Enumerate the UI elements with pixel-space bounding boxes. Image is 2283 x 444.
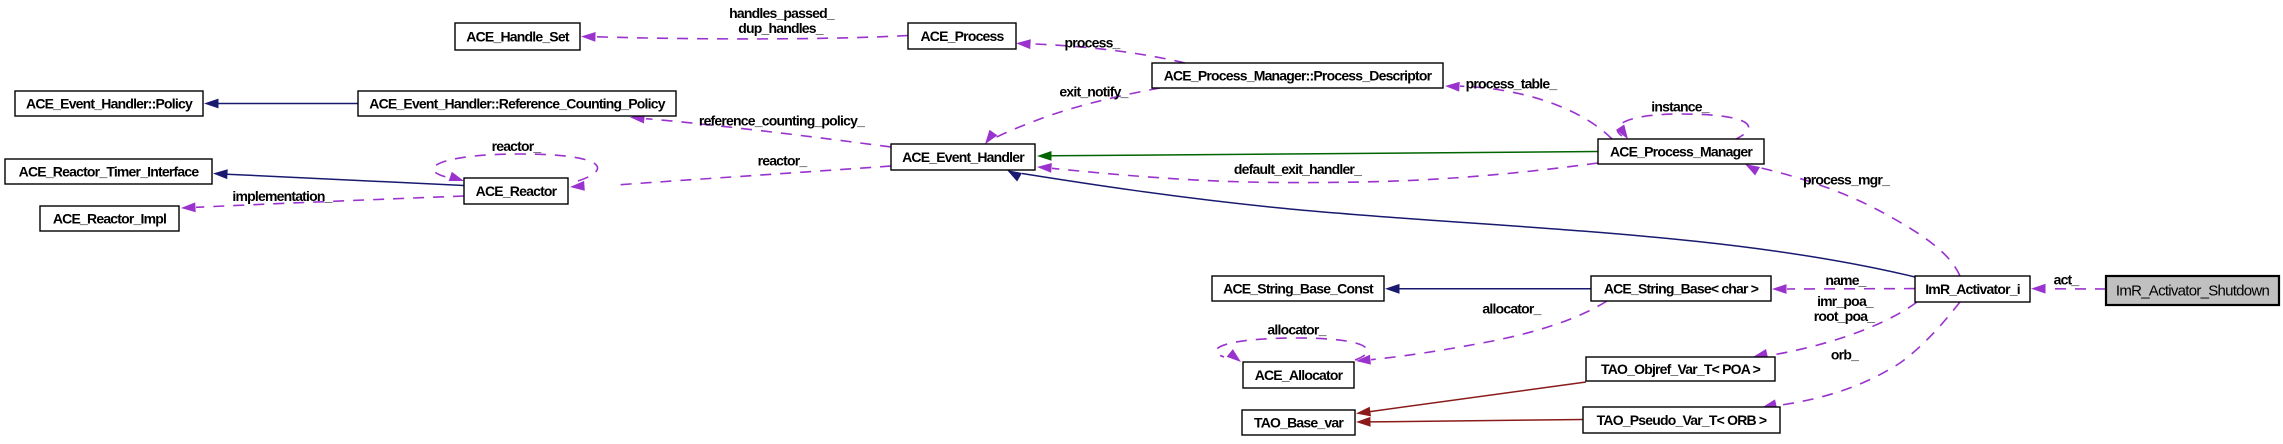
node ACE_String_Base_Const <box>1212 276 1384 301</box>
svg-text:handles_passed_: handles_passed_ <box>729 5 835 21</box>
edge label implementation_ <box>232 188 332 204</box>
edge label imr_poa_ <box>1817 293 1874 309</box>
svg-text:ACE_Event_Handler::Policy: ACE_Event_Handler::Policy <box>26 96 193 112</box>
svg-text:ACE_Process: ACE_Process <box>920 28 1004 44</box>
edge default_exit_handler_ (ACE_Process_Manager to ACE_Event_Handler) <box>1037 163 1598 183</box>
edge reactor_ (ACE_Event_Handler to ACE_Reactor) <box>570 166 891 191</box>
node ImR_Activator_i <box>1915 276 2030 302</box>
self-loop instance_ on ACE_Process_Manager <box>1616 114 1749 140</box>
edge label default_exit_handler_ <box>1234 161 1362 177</box>
edge label instance_ <box>1651 99 1709 115</box>
svg-text:ACE_Allocator: ACE_Allocator <box>1255 367 1344 383</box>
edge label name_ <box>1825 272 1866 288</box>
edge reference_counting_policy_ (ACE_Event_Handler to ACE_Event_Handler::Reference_Counting_Policy) <box>630 114 891 147</box>
edge label process_mgr_ <box>1803 172 1890 188</box>
edge label allocator_ <box>1267 322 1326 338</box>
svg-text:allocator_: allocator_ <box>1267 322 1326 338</box>
svg-text:TAO_Base_var: TAO_Base_var <box>1254 415 1344 431</box>
inheritance edge (TAO_Objref_Var_T POA to TAO_Base_var, private) <box>1356 382 1586 416</box>
node ACE_Allocator <box>1243 362 1354 388</box>
edge process_ (Process_Descriptor to ACE_Process) <box>1016 39 1185 63</box>
node ACE_Handle_Set <box>455 23 580 50</box>
edge label act_ <box>2054 272 2080 288</box>
node TAO_Pseudo_Var_TORB <box>1583 407 1780 433</box>
edge process_table_ (ACE_Process_Manager to Process_Descriptor) <box>1445 82 1612 139</box>
edge label root_poa_ <box>1814 308 1875 324</box>
svg-text:reactor_: reactor_ <box>492 138 542 154</box>
svg-text:orb_: orb_ <box>1831 347 1859 363</box>
svg-text:ImR_Activator_i: ImR_Activator_i <box>1925 281 2020 297</box>
node ACE_Process_Manager_Process_Descriptor <box>1152 63 1443 88</box>
node ACE_Reactor_Impl <box>40 206 179 231</box>
svg-text:dup_handles_: dup_handles_ <box>738 20 824 36</box>
node ACE_Reactor_Timer_Interface <box>5 159 212 184</box>
svg-text:ACE_Event_Handler: ACE_Event_Handler <box>902 149 1025 165</box>
edge act_ (ImR_Activator_Shutdown to ImR_Activator_i) <box>2031 284 2106 294</box>
edge imr_poa_ root_poa_ (ImR_Activator_i to TAO_Objref_Var_T POA) <box>1753 302 1917 359</box>
edge label allocator_ <box>1482 301 1541 317</box>
svg-text:reactor_: reactor_ <box>758 153 808 169</box>
svg-text:instance_: instance_ <box>1651 99 1709 115</box>
svg-text:ACE_Process_Manager: ACE_Process_Manager <box>1610 144 1753 160</box>
svg-text:default_exit_handler_: default_exit_handler_ <box>1234 161 1362 177</box>
node ACE_Reactor <box>464 178 568 204</box>
self-loop allocator_ on ACE_Allocator <box>1216 338 1367 362</box>
edge label handles_passed_ <box>729 5 835 21</box>
node ImR_Activator_Shutdown (current class, grey) <box>2106 276 2279 305</box>
svg-text:ACE_Reactor_Timer_Interface: ACE_Reactor_Timer_Interface <box>19 164 200 180</box>
edge label dup_handles_ <box>738 20 824 36</box>
svg-text:ACE_Reactor: ACE_Reactor <box>476 183 558 199</box>
inheritance edge (Reference_Counting_Policy to ACE_Event_Handler::Policy, public) <box>204 99 358 109</box>
edge exit_notify_ (Process_Descriptor to ACE_Event_Handler) <box>985 88 1160 144</box>
svg-text:exit_notify_: exit_notify_ <box>1059 84 1128 100</box>
edge label reactor_ <box>758 153 808 169</box>
svg-text:ACE_String_Base< char >: ACE_String_Base< char > <box>1604 281 1759 297</box>
node ACE_Process <box>908 23 1016 49</box>
inheritance edge (ImR_Activator_i to ACE_Event_Handler, public) <box>1007 170 1915 277</box>
node ACE_Event_Handler_Reference_Counting_Policy <box>358 91 676 116</box>
edge handles_passed_ dup_handles_ (ACE_Process to ACE_Handle_Set) <box>581 32 908 42</box>
edge implementation_ (ACE_Reactor to ACE_Reactor_Impl) <box>181 196 464 212</box>
edge label exit_notify_ <box>1059 84 1128 100</box>
edge label process_table_ <box>1466 76 1558 92</box>
svg-text:ACE_Process_Manager::Process_D: ACE_Process_Manager::Process_Descriptor <box>1164 68 1433 84</box>
svg-text:imr_poa_: imr_poa_ <box>1817 293 1874 309</box>
svg-text:root_poa_: root_poa_ <box>1814 308 1875 324</box>
edge name_ (ImR_Activator_i to ACE_String_Base char) <box>1772 284 1915 294</box>
inheritance edge (ACE_Reactor to ACE_Reactor_Timer_Interface, public) <box>213 169 464 185</box>
node TAO_Objref_Var_TPOA <box>1586 357 1775 381</box>
edge orb_ (ImR_Activator_i to TAO_Pseudo_Var_T ORB) <box>1762 302 1960 409</box>
svg-text:process_table_: process_table_ <box>1466 76 1558 92</box>
edge process_mgr_ (ImR_Activator_i to ACE_Process_Manager) <box>1745 164 1960 276</box>
self-loop reactor_ on ACE_Reactor <box>433 154 597 181</box>
edge label reference_counting_policy_ <box>699 113 865 129</box>
node ACE_Event_Handler_Policy <box>15 91 203 116</box>
node TAO_Base_var <box>1242 410 1355 435</box>
node ACE_Event_Handler <box>891 144 1035 170</box>
inheritance edge (ACE_String_Base char to ACE_String_Base_Const, public) <box>1385 284 1591 294</box>
svg-text:ACE_String_Base_Const: ACE_String_Base_Const <box>1223 281 1374 297</box>
node ACE_String_Basechar <box>1591 276 1771 301</box>
edge label orb_ <box>1831 347 1859 363</box>
inheritance edge (TAO_Pseudo_Var_T ORB to TAO_Base_var, private) <box>1356 417 1583 427</box>
svg-text:TAO_Pseudo_Var_T< ORB >: TAO_Pseudo_Var_T< ORB > <box>1597 412 1767 428</box>
svg-text:process_mgr_: process_mgr_ <box>1803 172 1890 188</box>
svg-text:ACE_Handle_Set: ACE_Handle_Set <box>466 29 570 45</box>
svg-text:ImR_Activator_Shutdown: ImR_Activator_Shutdown <box>2116 283 2270 300</box>
svg-text:implementation_: implementation_ <box>232 188 332 204</box>
edge label reactor_ <box>492 138 542 154</box>
svg-text:process_: process_ <box>1064 35 1120 51</box>
svg-text:name_: name_ <box>1825 272 1866 288</box>
node ACE_Process_Manager <box>1598 139 1764 164</box>
svg-text:reference_counting_policy_: reference_counting_policy_ <box>699 113 865 129</box>
svg-text:allocator_: allocator_ <box>1482 301 1541 317</box>
svg-text:TAO_Objref_Var_T< POA >: TAO_Objref_Var_T< POA > <box>1601 361 1761 377</box>
edge label process_ <box>1064 35 1120 51</box>
svg-text:act_: act_ <box>2054 272 2080 288</box>
svg-text:ACE_Reactor_Impl: ACE_Reactor_Impl <box>53 211 166 227</box>
svg-text:ACE_Event_Handler::Reference_C: ACE_Event_Handler::Reference_Counting_Po… <box>369 96 665 112</box>
edge allocator_ (ACE_String_Base char to ACE_Allocator) <box>1356 301 1607 365</box>
inheritance edge (ACE_Process_Manager to ACE_Event_Handler, protected) <box>1037 151 1598 161</box>
